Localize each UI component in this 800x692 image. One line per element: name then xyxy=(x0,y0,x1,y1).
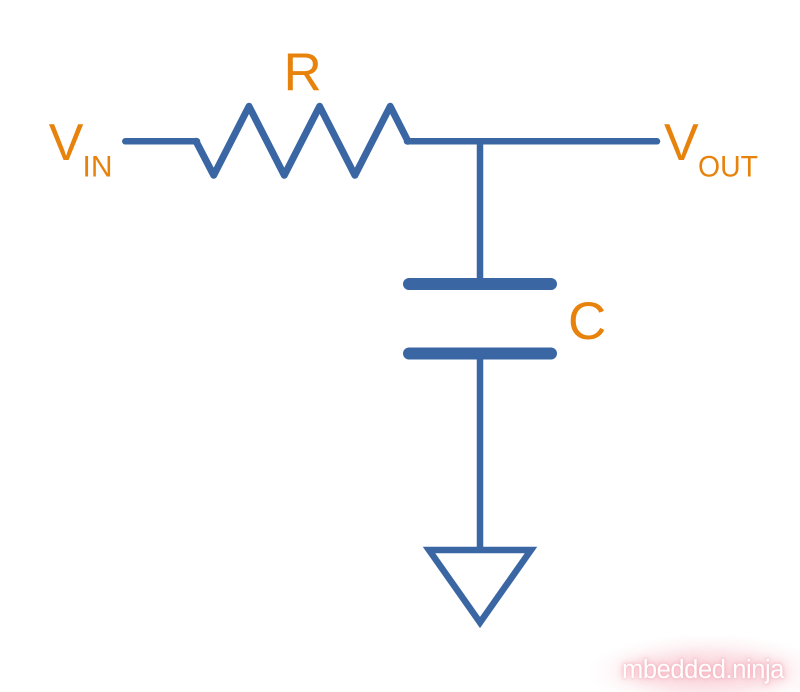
svg-text:OUT: OUT xyxy=(698,151,758,184)
svg-text:V: V xyxy=(664,114,699,172)
capacitor C top plate xyxy=(409,278,551,290)
svg-text:C: C xyxy=(568,292,606,351)
net label VIN xyxy=(49,114,113,184)
net label VOUT xyxy=(664,114,758,184)
wire resistor to output xyxy=(407,138,657,145)
resistor R xyxy=(196,106,408,175)
wire input lead xyxy=(125,138,197,145)
svg-text:R: R xyxy=(284,43,322,102)
capacitor C bottom plate xyxy=(409,348,551,360)
watermark mbedded.ninja xyxy=(588,634,800,692)
ground xyxy=(429,550,531,623)
svg-text:IN: IN xyxy=(83,151,113,184)
svg-text:V: V xyxy=(49,114,84,172)
wire junction to capacitor xyxy=(477,139,484,284)
wire capacitor to ground xyxy=(477,354,484,549)
